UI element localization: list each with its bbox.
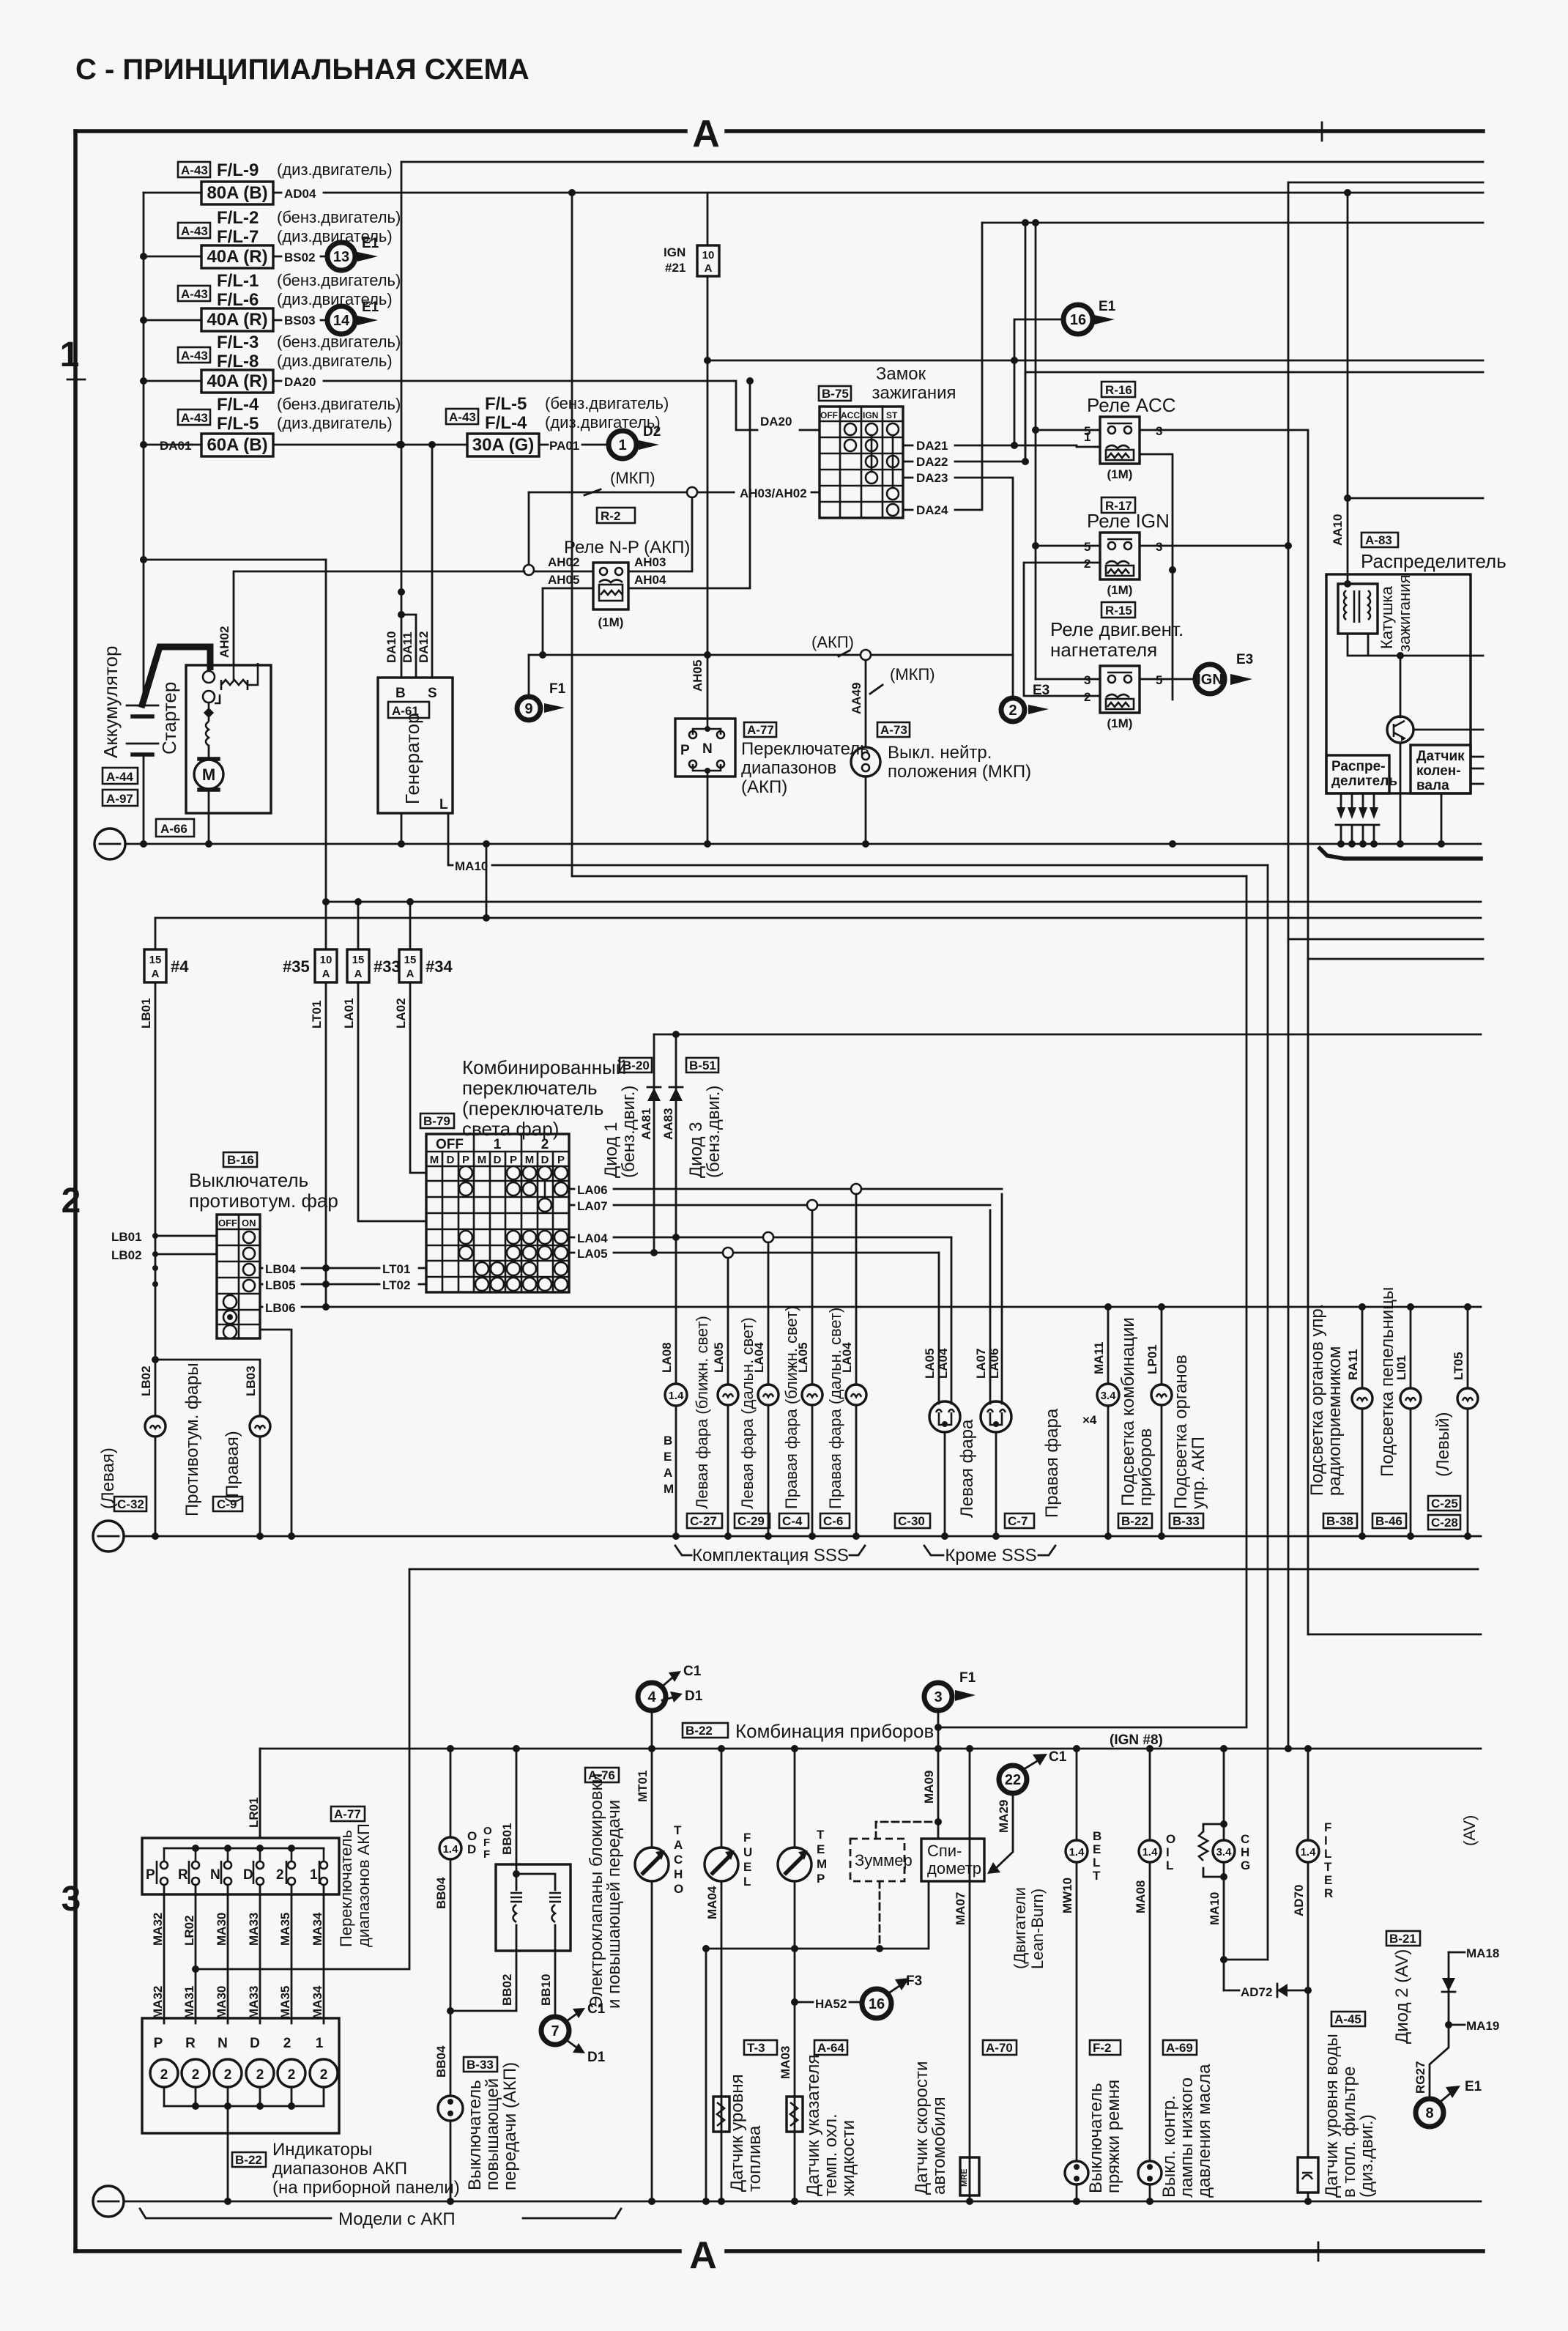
wire BS03 <box>273 319 329 322</box>
svg-text:OFF: OFF <box>436 1137 464 1152</box>
svg-text:C1: C1 <box>1049 1749 1067 1765</box>
svg-text:U: U <box>743 1845 752 1859</box>
svg-text:IGN: IGN <box>1197 672 1223 688</box>
wire left feed bus <box>140 193 201 563</box>
wire generator ground <box>398 813 405 848</box>
svg-text:(бенз.двиг.): (бенз.двиг.) <box>704 1086 724 1178</box>
wire riser relay feed <box>1032 223 1039 679</box>
svg-text:1.4: 1.4 <box>443 1843 459 1856</box>
svg-text:MA18: MA18 <box>1466 1946 1499 1960</box>
svg-text:P: P <box>510 1154 517 1166</box>
wire LB04 LT01 <box>260 1262 426 1276</box>
wire bus B <box>155 914 1481 922</box>
svg-text:F/L-3: F/L-3 <box>217 333 259 352</box>
svg-text:давления масла: давления масла <box>1194 2064 1214 2198</box>
wire MA10 <box>448 813 1268 873</box>
lamp right low beam <box>782 1210 822 1540</box>
svg-text:16: 16 <box>869 1996 885 2012</box>
svg-text:#4: #4 <box>171 957 189 976</box>
svg-text:OFF: OFF <box>820 410 838 420</box>
wire DA21 <box>903 430 1100 453</box>
svg-text:1: 1 <box>494 1137 502 1152</box>
wire DA22 <box>903 372 1029 469</box>
svg-text:2: 2 <box>224 2067 232 2083</box>
svg-text:RA11: RA11 <box>1346 1349 1360 1380</box>
svg-text:(АКП): (АКП) <box>811 633 854 651</box>
svg-text:2: 2 <box>288 2067 296 2083</box>
svg-text:DA21: DA21 <box>916 439 948 453</box>
svg-text:MA35: MA35 <box>278 1986 292 2019</box>
svg-text:(1M): (1M) <box>1107 583 1133 597</box>
svg-text:1.4: 1.4 <box>1301 1846 1317 1858</box>
svg-text:Модели с АКП: Модели с АКП <box>338 2209 456 2229</box>
svg-text:2: 2 <box>192 2067 200 2083</box>
svg-text:E: E <box>817 1842 825 1856</box>
svg-text:3: 3 <box>62 1880 81 1919</box>
svg-text:AH03: AH03 <box>634 555 666 569</box>
svg-text:C-9: C-9 <box>217 1497 237 1511</box>
connector A-66 <box>156 819 194 837</box>
svg-text:S: S <box>428 686 437 701</box>
speedometer box <box>921 1771 984 1881</box>
svg-text:С - ПРИНЦИПИАЛЬНАЯ СХЕМА: С - ПРИНЦИПИАЛЬНАЯ СХЕМА <box>75 53 530 86</box>
fuse 40A (R) BS03 <box>201 308 316 331</box>
svg-text:F/L-7: F/L-7 <box>217 227 259 247</box>
svg-text:R: R <box>1324 1886 1333 1900</box>
connector A-70 <box>983 2040 1017 2055</box>
svg-text:22: 22 <box>1005 1772 1021 1788</box>
lamp ashtray illumination <box>1378 1287 1421 1540</box>
svg-text:E1: E1 <box>362 300 379 315</box>
svg-text:R: R <box>178 1867 188 1883</box>
wire DA24 <box>903 223 982 517</box>
connector T-3 <box>744 2040 777 2055</box>
fuse 40A (R) BS02 <box>201 245 316 268</box>
svg-text:Выключатель: Выключатель <box>1086 2083 1106 2193</box>
svg-text:MA09: MA09 <box>922 1771 936 1804</box>
connector A-69 <box>1163 2040 1197 2055</box>
svg-text:8: 8 <box>1425 2105 1433 2121</box>
connector A-76 <box>585 1768 619 1782</box>
svg-text:A-45: A-45 <box>1334 2012 1361 2026</box>
wire DA12 <box>431 445 434 678</box>
sensor Датчик коленвала <box>1411 745 1483 844</box>
svg-text:MA07: MA07 <box>954 1892 967 1925</box>
svg-text:AD70: AD70 <box>1292 1885 1306 1916</box>
svg-text:MA35: MA35 <box>278 1913 292 1946</box>
wire selector outputs <box>151 1885 324 2023</box>
svg-text:BB04: BB04 <box>434 1877 448 1909</box>
svg-text:B: B <box>395 686 406 701</box>
svg-text:A-43: A-43 <box>181 349 208 363</box>
svg-text:(переключатель: (переключатель <box>462 1097 603 1119</box>
wire DA20 <box>273 381 820 430</box>
lamp cigar lighter left <box>1433 1307 1478 1540</box>
svg-text:MA34: MA34 <box>311 1985 324 2019</box>
svg-text:3: 3 <box>1084 673 1090 687</box>
svg-text:Левая фара: Левая фара <box>957 1419 977 1518</box>
svg-text:Распре-: Распре- <box>1331 759 1386 774</box>
svg-text:1: 1 <box>60 336 80 374</box>
wire AH02 starter <box>218 571 524 663</box>
svg-text:B-22: B-22 <box>1121 1514 1148 1528</box>
svg-text:A-66: A-66 <box>160 822 187 836</box>
svg-text:Распределитель: Распределитель <box>1361 550 1506 572</box>
svg-text:DA24: DA24 <box>916 503 948 517</box>
wire bus ACC row <box>1025 371 1483 374</box>
svg-text:DA20: DA20 <box>760 415 792 429</box>
wire AD04 top bus <box>273 189 1483 196</box>
label Комплектация SSS <box>675 1546 865 1565</box>
svg-text:LT01: LT01 <box>382 1262 410 1276</box>
svg-text:C-32: C-32 <box>117 1497 144 1511</box>
svg-text:DA10: DA10 <box>384 631 398 663</box>
relay R-17 IGN <box>1036 497 1170 597</box>
label fog lamps <box>182 1363 202 1516</box>
svg-text:Генератор: Генератор <box>401 713 423 804</box>
wire fog switch out <box>260 1330 295 1540</box>
lamp radio illumination <box>1307 1304 1372 1540</box>
svg-text:LR02: LR02 <box>182 1915 196 1946</box>
svg-text:(АКП): (АКП) <box>741 777 787 797</box>
diode 1 AA81 B-20 <box>601 1034 661 1253</box>
wire AKP bus <box>529 633 1013 660</box>
svg-text:MA31: MA31 <box>182 1986 196 2019</box>
svg-text:D1: D1 <box>587 2050 606 2065</box>
svg-text:B-33: B-33 <box>467 2058 494 2072</box>
svg-text:(бенз.двиг.): (бенз.двиг.) <box>619 1086 639 1178</box>
label fog left <box>98 1448 118 1509</box>
distributor A-83 <box>1326 533 1506 793</box>
fuse 80A (B) AD04 <box>201 182 316 204</box>
wire bus IGN row <box>707 357 1483 364</box>
svg-text:D1: D1 <box>685 1689 703 1704</box>
svg-text:Левая фара (ближн. свет): Левая фара (ближн. свет) <box>693 1316 711 1509</box>
svg-text:F-2: F-2 <box>1093 2041 1112 2055</box>
svg-text:LP01: LP01 <box>1145 1344 1159 1374</box>
svg-text:F/L-5: F/L-5 <box>485 394 527 414</box>
distributor HV arrows <box>1336 793 1379 844</box>
sender water in filter <box>1298 2034 1377 2205</box>
wire DA10 <box>384 615 431 678</box>
svg-text:O: O <box>467 1829 477 1843</box>
svg-text:E: E <box>743 1860 751 1874</box>
wire HA52 node 16 F3 <box>791 1974 922 2018</box>
wire lamp top bus <box>654 1031 1481 1038</box>
svg-text:LB01: LB01 <box>139 998 153 1029</box>
svg-text:40A (R): 40A (R) <box>207 247 267 267</box>
wire bus C right <box>572 875 1246 878</box>
svg-text:7: 7 <box>551 2023 559 2039</box>
svg-text:C-30: C-30 <box>898 1514 925 1528</box>
svg-text:B-75: B-75 <box>822 387 849 401</box>
svg-text:LA05: LA05 <box>712 1342 726 1373</box>
svg-text:E: E <box>1093 1842 1101 1856</box>
buzzer Зуммер <box>850 1818 942 1949</box>
lamp left sealed beam <box>923 1237 977 1540</box>
svg-text:радиоприемником: радиоприемником <box>1325 1346 1345 1496</box>
svg-text:(диз.двигатель): (диз.двигатель) <box>277 160 393 179</box>
svg-text:E: E <box>664 1450 672 1464</box>
svg-text:Спи-: Спи- <box>927 1842 962 1860</box>
svg-text:(1M): (1M) <box>598 615 624 629</box>
wire LA01 <box>342 982 426 1221</box>
svg-text:A: A <box>674 1838 683 1852</box>
wire fog lamp feeds <box>139 1360 260 1416</box>
svg-text:2: 2 <box>320 2067 328 2083</box>
svg-text:MA30: MA30 <box>215 1986 228 2019</box>
svg-text:LA07: LA07 <box>577 1199 608 1213</box>
connector C-4 <box>779 1513 809 1528</box>
svg-text:Правая фара (дальн. свет): Правая фара (дальн. свет) <box>826 1308 844 1509</box>
svg-text:OFF: OFF <box>218 1218 237 1228</box>
svg-text:F3: F3 <box>906 1974 922 1989</box>
svg-text:P: P <box>557 1154 565 1166</box>
svg-text:F1: F1 <box>959 1670 976 1686</box>
svg-text:3: 3 <box>1156 424 1162 438</box>
node 22 C1 <box>987 1749 1067 1969</box>
svg-text:G: G <box>1241 1858 1250 1872</box>
svg-text:1: 1 <box>316 2036 324 2051</box>
svg-text:F/L-4: F/L-4 <box>217 395 259 415</box>
svg-text:(бенз.двигатель): (бенз.двигатель) <box>277 333 401 351</box>
svg-text:5: 5 <box>1084 424 1090 438</box>
connector B-46 <box>1372 1513 1406 1528</box>
svg-text:зажигания: зажигания <box>872 383 956 403</box>
switch grid contacts <box>459 1166 568 1291</box>
svg-text:LA01: LA01 <box>342 998 356 1029</box>
svg-text:A: A <box>689 2234 717 2277</box>
svg-text:Реле ACC: Реле ACC <box>1087 394 1176 416</box>
svg-text:L: L <box>1324 1847 1331 1861</box>
svg-text:MA32: MA32 <box>151 1913 165 1946</box>
svg-text:E3: E3 <box>1236 652 1253 667</box>
svg-text:P: P <box>680 743 690 758</box>
svg-text:Правая фара: Правая фара <box>1042 1408 1062 1518</box>
svg-text:E1: E1 <box>362 236 379 251</box>
lamp cluster illumination <box>1082 1307 1156 1540</box>
wire stub 1309 <box>1308 958 1483 960</box>
svg-text:B-33: B-33 <box>1173 1514 1200 1528</box>
svg-text:(бенз.двигатель): (бенз.двигатель) <box>545 394 669 412</box>
svg-text:ACC: ACC <box>841 410 860 420</box>
svg-text:C-7: C-7 <box>1008 1514 1028 1528</box>
svg-text:Подсветка пепельницы: Подсветка пепельницы <box>1378 1287 1397 1477</box>
wire transistor emitter <box>1400 743 1402 844</box>
svg-text:Комбинированный: Комбинированный <box>462 1056 626 1078</box>
svg-text:O: O <box>483 1825 492 1837</box>
svg-text:Комбинация приборов: Комбинация приборов <box>735 1720 934 1742</box>
svg-text:Датчик: Датчик <box>1416 749 1465 764</box>
svg-text:T-3: T-3 <box>747 2041 765 2055</box>
svg-text:A-43: A-43 <box>181 163 208 177</box>
svg-text:AA83: AA83 <box>661 1108 675 1140</box>
svg-text:повышающей: повышающей <box>483 2078 502 2190</box>
switch A-73 neutral <box>851 722 1031 782</box>
wire LA02 <box>394 982 426 1173</box>
lamp right sealed beam <box>974 1194 1062 1540</box>
connector A-43 F/L-4 F/L-5 <box>178 395 401 434</box>
fuse #33 15A <box>347 902 401 982</box>
svg-text:Lean-Burn): Lean-Burn) <box>1028 1889 1047 1969</box>
wire LB05 LT02 <box>260 1278 426 1292</box>
switch A-77 range selector <box>142 1797 373 1947</box>
svg-text:LT02: LT02 <box>382 1278 410 1292</box>
connector C-9 <box>213 1497 242 1511</box>
svg-text:Реле IGN: Реле IGN <box>1087 510 1170 532</box>
svg-text:A-43: A-43 <box>181 411 208 425</box>
relay R-16 ACC <box>1036 382 1176 481</box>
relay R-15 fan <box>1036 602 1184 730</box>
svg-text:AD04: AD04 <box>284 187 316 201</box>
wire bus x1341 top <box>982 219 1483 226</box>
svg-text:F1: F1 <box>549 681 566 697</box>
svg-text:C: C <box>674 1853 683 1867</box>
svg-text:и повышающей передачи: и повышающей передачи <box>604 1800 624 2009</box>
svg-text:Переключатель: Переключатель <box>337 1830 355 1947</box>
svg-text:BS02: BS02 <box>284 251 316 264</box>
svg-text:M: M <box>430 1154 439 1166</box>
svg-text:80A (B): 80A (B) <box>207 183 267 203</box>
svg-text:×4: ×4 <box>1082 1413 1097 1427</box>
svg-text:DA20: DA20 <box>284 375 316 389</box>
svg-text:E1: E1 <box>1099 299 1116 314</box>
connector A-43 F/L-1 F/L-6 <box>178 271 401 310</box>
svg-text:LA02: LA02 <box>394 998 408 1029</box>
svg-text:(диз.двигатель): (диз.двигатель) <box>277 352 393 370</box>
svg-text:топлива: топлива <box>745 2125 765 2192</box>
lamp AKP illumination <box>1145 1307 1208 1540</box>
svg-text:M: M <box>525 1154 535 1166</box>
svg-text:(бенз.двигатель): (бенз.двигатель) <box>277 271 401 289</box>
svg-text:темп. охл.: темп. охл. <box>821 2113 841 2196</box>
svg-text:LT05: LT05 <box>1452 1352 1465 1380</box>
svg-text:делитель: делитель <box>1331 774 1397 789</box>
svg-text:15: 15 <box>352 954 365 966</box>
connector B-22 lamps <box>1118 1513 1152 1528</box>
svg-text:BS03: BS03 <box>284 314 316 327</box>
svg-text:передачи (АКП): передачи (АКП) <box>500 2062 520 2190</box>
wire AA10 <box>1331 193 1351 584</box>
svg-text:Катушка: Катушка <box>1378 585 1396 649</box>
svg-text:60A (B): 60A (B) <box>207 435 267 455</box>
wire ACC pin1 DA21 <box>1096 447 1176 700</box>
svg-text:колен-: колен- <box>1416 763 1461 779</box>
wire riser v1 <box>1246 876 1248 1727</box>
svg-text:2: 2 <box>160 2067 168 2083</box>
svg-text:AH02: AH02 <box>218 626 231 658</box>
connector B-22 indicators <box>232 2140 460 2198</box>
connector B-38 <box>1323 1513 1357 1528</box>
svg-text:AH02: AH02 <box>548 555 579 569</box>
wire AH04 <box>628 377 754 588</box>
wire LA07 row <box>569 1199 990 1213</box>
svg-text:LA06: LA06 <box>577 1183 608 1197</box>
wire AA49 MKP <box>850 660 935 747</box>
svg-text:Датчик уровня: Датчик уровня <box>727 2074 747 2192</box>
wire left tap row <box>144 559 326 561</box>
wire LA04 row <box>569 1231 951 1245</box>
ground bus bottom <box>93 2186 1481 2217</box>
wire switch ground <box>704 777 711 848</box>
svg-text:MA19: MA19 <box>1466 2019 1499 2033</box>
node 13 E1 <box>327 236 379 270</box>
svg-text:2: 2 <box>62 1182 81 1220</box>
svg-text:Подсветка комбинации: Подсветка комбинации <box>1118 1317 1138 1506</box>
svg-text:BB01: BB01 <box>500 1823 514 1855</box>
svg-text:Кроме SSS: Кроме SSS <box>945 1546 1036 1565</box>
svg-text:C-25: C-25 <box>1431 1497 1458 1511</box>
svg-text:Выкл. контр.: Выкл. контр. <box>1159 2095 1179 2198</box>
gauge fuel MA04 <box>705 1749 752 2205</box>
svg-text:F/L-6: F/L-6 <box>217 290 259 310</box>
svg-text:MA08: MA08 <box>1134 1880 1148 1913</box>
svg-text:LB01: LB01 <box>111 1230 142 1244</box>
wire BB02 <box>450 1951 516 2011</box>
svg-text:Диод 3: Диод 3 <box>686 1122 706 1179</box>
svg-text:D: D <box>467 1842 476 1856</box>
switch buckle <box>1065 2080 1123 2205</box>
svg-text:A: A <box>705 262 713 275</box>
svg-text:D: D <box>447 1154 455 1166</box>
generator A-61 <box>378 678 453 813</box>
svg-text:BB04: BB04 <box>434 2045 448 2078</box>
svg-text:A-44: A-44 <box>106 770 133 784</box>
svg-text:B-21: B-21 <box>1389 1932 1416 1946</box>
svg-text:I: I <box>1324 1834 1328 1848</box>
svg-text:P: P <box>462 1154 469 1166</box>
svg-text:9: 9 <box>524 701 532 717</box>
svg-text:A-77: A-77 <box>334 1807 361 1821</box>
svg-text:противотум. фар: противотум. фар <box>189 1190 338 1212</box>
svg-text:C-28: C-28 <box>1431 1516 1458 1530</box>
sender fuel level <box>713 2074 765 2192</box>
svg-text:Зуммер: Зуммер <box>855 1851 913 1869</box>
svg-text:C-29: C-29 <box>737 1514 765 1528</box>
svg-text:L: L <box>1166 1858 1173 1872</box>
svg-text:(на приборной панели): (на приборной панели) <box>272 2178 460 2198</box>
svg-text:B-46: B-46 <box>1375 1514 1402 1528</box>
svg-text:D: D <box>494 1154 502 1166</box>
svg-text:R-2: R-2 <box>601 509 620 523</box>
svg-text:C-27: C-27 <box>690 1514 717 1528</box>
svg-text:(Двигатели: (Двигатели <box>1011 1887 1029 1969</box>
wire DA01 bus row <box>192 441 467 448</box>
wire LA05 row <box>569 1247 939 1261</box>
svg-text:5: 5 <box>1084 540 1090 554</box>
wire LR01 feed <box>259 1749 261 1838</box>
connector A-45 <box>1331 2012 1365 2026</box>
svg-text:AA81: AA81 <box>639 1108 653 1140</box>
svg-text:P: P <box>146 1867 155 1883</box>
svg-text:D2: D2 <box>643 424 661 440</box>
svg-text:3.4: 3.4 <box>1216 1846 1233 1858</box>
svg-text:MRE: MRE <box>960 2169 969 2187</box>
svg-text:#33: #33 <box>374 957 401 976</box>
svg-text:LA05: LA05 <box>923 1348 937 1379</box>
svg-text:F: F <box>483 1837 490 1849</box>
connector C-7 <box>1005 1513 1034 1528</box>
svg-text:Подсветка органов: Подсветка органов <box>1171 1354 1191 1509</box>
node 9 F1 <box>517 655 566 720</box>
svg-text:(AV): (AV) <box>1460 1815 1479 1846</box>
wire LR02 link <box>196 1749 409 1969</box>
svg-text:1.4: 1.4 <box>1142 1846 1159 1858</box>
svg-text:Индикаторы: Индикаторы <box>272 2140 372 2160</box>
svg-text:PA01: PA01 <box>549 439 579 453</box>
wire IGN21 feed <box>704 193 711 719</box>
svg-text:B-22: B-22 <box>235 2153 262 2167</box>
